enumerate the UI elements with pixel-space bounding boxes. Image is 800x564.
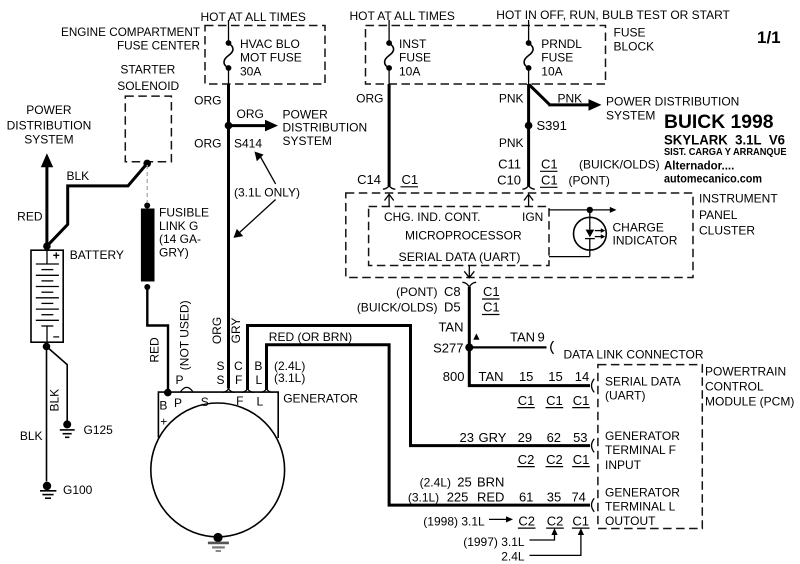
svg-text:INST: INST — [399, 37, 427, 51]
svg-text:DISTRIBUTION: DISTRIBUTION — [7, 118, 92, 132]
engine compartment fuse center box — [205, 26, 325, 85]
label FUSIBLE LINK G (14 GA- GRY) — [159, 206, 209, 260]
wire stub above PRNDL fuse — [528, 20, 530, 43]
connector at data link — [551, 341, 554, 354]
label C1 (C14 row, underlined) — [401, 172, 419, 187]
svg-text:C1: C1 — [541, 157, 558, 172]
svg-text:C2: C2 — [518, 452, 535, 467]
wire INST fuse to box edge — [388, 68, 390, 84]
svg-text:C1: C1 — [572, 513, 589, 528]
svg-text:CHG. IND. CONT.: CHG. IND. CONT. — [384, 210, 481, 224]
connector at PCM serial data — [592, 379, 595, 393]
label (1997) 3.1L with arrow to C2 — [463, 528, 557, 549]
svg-text:D5: D5 — [444, 300, 461, 315]
wire TAN cluster to S277 to PCM serial data — [469, 287, 590, 386]
fusible link G — [141, 203, 155, 291]
svg-text:HOT IN OFF, RUN, BULB TEST OR: HOT IN OFF, RUN, BULB TEST OR START — [496, 8, 730, 22]
svg-text:PNK: PNK — [499, 92, 524, 106]
svg-text:SYSTEM: SYSTEM — [24, 133, 73, 147]
generator body circle — [151, 403, 285, 537]
svg-text:BLK: BLK — [67, 169, 90, 183]
svg-text:(3.1L ONLY): (3.1L ONLY) — [234, 185, 300, 199]
svg-text:GENERATOR: GENERATOR — [605, 486, 680, 500]
svg-text:ORG: ORG — [194, 137, 221, 151]
svg-text:HOT AT ALL TIMES: HOT AT ALL TIMES — [201, 10, 306, 24]
connector at PCM terminal L — [592, 498, 595, 512]
svg-text:ORG: ORG — [356, 92, 383, 106]
fuse HVAC BLO MOT FUSE 30A — [224, 40, 233, 71]
svg-text:GENERATOR: GENERATOR — [283, 392, 358, 406]
label (2.4L) 25 BRN — [420, 475, 505, 490]
svg-text:35: 35 — [547, 490, 561, 505]
label POWER DISTRIBUTION SYSTEM (top middle) — [283, 107, 368, 148]
svg-text:MICROPROCESSOR: MICROPROCESSOR — [405, 228, 522, 242]
svg-text:C2: C2 — [518, 513, 535, 528]
svg-text:POWER: POWER — [283, 107, 329, 121]
label FUSE BLOCK — [614, 26, 655, 54]
svg-text:PNK: PNK — [558, 91, 583, 105]
starter solenoid box — [125, 96, 171, 162]
node at solenoid output — [143, 160, 151, 168]
svg-text:15: 15 — [548, 369, 562, 384]
svg-text:FUSE CENTER: FUSE CENTER — [117, 39, 200, 53]
svg-text:C1: C1 — [573, 393, 590, 408]
node generator B+ — [164, 389, 172, 397]
label C1 (D5 row, underlined) — [482, 300, 500, 315]
svg-text:(UART): (UART) — [605, 388, 645, 402]
label POWERTRAIN CONTROL MODULE (PCM) — [705, 365, 794, 409]
wire RED (OR BRN) generator L to PCM — [267, 345, 591, 505]
wire stub above INST fuse — [388, 20, 390, 43]
svg-text:BRN: BRN — [477, 475, 504, 490]
svg-text:C14: C14 — [357, 172, 381, 187]
svg-text:TAN: TAN — [510, 329, 535, 344]
svg-text:ENGINE COMPARTMENT: ENGINE COMPARTMENT — [61, 25, 201, 39]
label SERIAL DATA (UART) in PCM — [605, 374, 681, 402]
svg-text:SIST. CARGA Y ARRANQUE: SIST. CARGA Y ARRANQUE — [664, 147, 787, 158]
ground G125 — [60, 420, 75, 437]
label GENERATOR TERMINAL F INPUT — [605, 429, 680, 472]
svg-text:SOLENOID: SOLENOID — [117, 79, 179, 93]
svg-text:FUSE: FUSE — [541, 51, 573, 65]
svg-text:25: 25 — [457, 475, 471, 490]
label POWER DISTRIBUTION SYSTEM (left) — [7, 103, 92, 147]
svg-text:ORG: ORG — [210, 317, 224, 344]
label HVAC BLO MOT FUSE 30A — [240, 37, 302, 79]
label POWER DISTRIBUTION SYSTEM (right) — [606, 94, 739, 122]
generator terminal box — [158, 392, 278, 438]
wire TAN 9 to data link connector — [469, 346, 546, 348]
label (1998) 3.1L with arrow — [423, 514, 513, 528]
svg-text:PRNDL: PRNDL — [541, 37, 582, 51]
svg-text:2.4L: 2.4L — [501, 550, 525, 564]
svg-text:INDICATOR: INDICATOR — [613, 233, 678, 247]
instrument panel cluster box — [346, 193, 693, 278]
node battery positive — [43, 242, 51, 250]
svg-text:PNK: PNK — [499, 136, 524, 150]
wire dashed link solenoid to fusible link — [146, 165, 148, 202]
svg-text:225: 225 — [447, 490, 469, 505]
node S277 — [465, 343, 473, 351]
svg-text:FUSE: FUSE — [399, 51, 431, 65]
wire stub above HVAC fuse — [228, 20, 230, 26]
microprocessor box — [369, 207, 549, 266]
svg-text:30A: 30A — [240, 65, 261, 79]
label 2.4L with arrow to C1 — [501, 528, 584, 564]
node S414 — [225, 122, 233, 130]
svg-text:GENERATOR: GENERATOR — [605, 429, 680, 443]
svg-text:GRY: GRY — [479, 430, 507, 445]
wire ORG from INST fuse down to C14 — [388, 84, 391, 186]
svg-text:CONTROL: CONTROL — [705, 380, 764, 394]
svg-text:INPUT: INPUT — [605, 458, 642, 472]
wire arrow S414 to power distribution system — [229, 120, 279, 132]
svg-text:C2: C2 — [546, 452, 563, 467]
svg-text:MOT FUSE: MOT FUSE — [240, 51, 302, 65]
wire BLK battery to G125 — [47, 347, 68, 421]
wire BLK battery to G100 — [46, 347, 48, 482]
svg-text:L: L — [255, 373, 262, 387]
label C2 C2 C1 (F row, underlined) — [517, 452, 590, 467]
fuse INST FUSE 10A — [385, 40, 394, 71]
connector bump C14 — [383, 186, 395, 189]
svg-text:FUSIBLE: FUSIBLE — [159, 206, 209, 220]
svg-text:F: F — [236, 394, 243, 408]
svg-text:POWERTRAIN: POWERTRAIN — [705, 365, 786, 379]
powertrain control module box — [598, 365, 702, 529]
svg-text:S391: S391 — [537, 118, 567, 133]
svg-text:FUSE: FUSE — [614, 26, 646, 40]
svg-text:HVAC BLO: HVAC BLO — [240, 37, 300, 51]
svg-text:B: B — [159, 398, 167, 412]
label INSTRUMENT PANEL CLUSTER — [699, 192, 778, 238]
svg-text:LINK G: LINK G — [159, 219, 198, 233]
wire ORG main vertical (fuse to generator S terminal) — [227, 84, 230, 389]
svg-text:INSTRUMENT: INSTRUMENT — [699, 192, 778, 206]
direction arrow at S277 — [473, 333, 479, 339]
wire PNK from PRNDL fuse down to C10 — [527, 84, 530, 186]
svg-text:SYSTEM: SYSTEM — [606, 109, 655, 123]
svg-text:C8: C8 — [444, 284, 461, 299]
label 23 GRY — [460, 430, 507, 445]
svg-text:61: 61 — [519, 490, 533, 505]
svg-text:GRY): GRY) — [159, 246, 189, 260]
svg-text:C10: C10 — [497, 173, 521, 188]
svg-text:62: 62 — [547, 430, 561, 445]
wire RED fusible link to generator B+ — [147, 287, 168, 391]
arrow from (3.1L ONLY) to ORG wire — [234, 200, 276, 238]
label (PONT) C8 — [396, 284, 460, 299]
svg-text:C11: C11 — [498, 157, 521, 172]
ground at generator body — [208, 533, 229, 551]
label C1 (C10 row, underlined) — [540, 173, 558, 188]
ground G100 — [40, 482, 56, 498]
node charge indicator top — [587, 207, 593, 213]
label TAN 9 — [510, 329, 545, 344]
svg-text:23: 23 — [460, 430, 474, 445]
svg-text:10A: 10A — [541, 65, 562, 79]
svg-text:B: B — [254, 359, 262, 373]
svg-text:TERMINAL F: TERMINAL F — [605, 443, 676, 457]
svg-text:S277: S277 — [433, 340, 463, 355]
label C2 C2 C1 (L row, underlined) — [518, 513, 590, 528]
svg-text:C1: C1 — [483, 300, 500, 315]
label 29 62 53 (pins) — [518, 430, 588, 445]
svg-text:14: 14 — [575, 369, 589, 384]
svg-text:29: 29 — [518, 430, 532, 445]
svg-text:C1: C1 — [546, 393, 563, 408]
svg-text:CHARGE: CHARGE — [613, 220, 664, 234]
svg-text:(BUICK/OLDS): (BUICK/OLDS) — [579, 158, 660, 172]
svg-text:TAN: TAN — [438, 320, 463, 335]
label ENGINE COMPARTMENT FUSE CENTER — [61, 25, 201, 53]
svg-text:S: S — [201, 395, 209, 409]
svg-text:9: 9 — [538, 329, 545, 344]
label C1 (C11 row, underlined) — [540, 157, 558, 172]
arrow into CHG IND CONT — [385, 194, 394, 206]
svg-text:P: P — [174, 396, 182, 410]
label 61 35 74 (pins) — [519, 490, 586, 505]
svg-text:10A: 10A — [399, 65, 420, 79]
label PRNDL FUSE 10A — [541, 37, 582, 79]
svg-text:G100: G100 — [63, 483, 93, 497]
svg-text:DISTRIBUTION: DISTRIBUTION — [283, 120, 368, 134]
connector bump P (not used) — [180, 387, 193, 392]
svg-text:POWER: POWER — [26, 103, 72, 117]
svg-text:(1998) 3.1L: (1998) 3.1L — [423, 514, 485, 528]
svg-text:(2.4L): (2.4L) — [420, 476, 451, 490]
wire PRNDL fuse to box edge — [528, 68, 530, 84]
connector bump S — [222, 389, 234, 392]
svg-text:(1997) 3.1L: (1997) 3.1L — [463, 535, 525, 549]
svg-text:BUICK 1998: BUICK 1998 — [664, 112, 774, 133]
svg-text:STARTER: STARTER — [120, 63, 175, 77]
svg-text:+: + — [160, 415, 167, 429]
svg-text:L: L — [257, 394, 264, 408]
wire arrow PNK to power distribution system — [529, 85, 602, 111]
svg-text:ORG: ORG — [194, 94, 221, 108]
svg-text:C1: C1 — [518, 393, 535, 408]
connector bump C10 — [522, 186, 534, 189]
label C1 C1 C1 (serial row, underlined) — [517, 393, 590, 408]
svg-text:(3.1L): (3.1L) — [274, 371, 305, 385]
label 15 15 14 (pins) — [519, 369, 589, 384]
svg-text:(3.1L): (3.1L) — [408, 491, 439, 505]
svg-text:PANEL: PANEL — [699, 208, 738, 222]
connector bump C8/D5 — [462, 282, 476, 286]
connector bump F — [241, 389, 253, 392]
connector at PCM terminal F — [592, 439, 595, 453]
svg-text:RED: RED — [17, 210, 43, 224]
svg-text:BLK: BLK — [20, 429, 43, 443]
label (BUICK/OLDS) D5 — [357, 300, 461, 315]
label STARTER SOLENOID — [117, 63, 179, 93]
svg-text:S414: S414 — [234, 137, 262, 151]
svg-text:CLUSTER: CLUSTER — [699, 223, 755, 237]
label C1 (C8 row, underlined) — [482, 284, 500, 299]
svg-text:C1: C1 — [402, 172, 419, 187]
svg-text:BLOCK: BLOCK — [614, 40, 655, 54]
label GENERATOR TERMINAL L OUTOUT — [605, 486, 680, 529]
connector bump L — [260, 389, 272, 392]
svg-text:(BUICK/OLDS): (BUICK/OLDS) — [357, 301, 438, 315]
svg-text:15: 15 — [519, 369, 533, 384]
label (3.1L) 225 RED — [408, 490, 505, 505]
svg-text:C1: C1 — [573, 452, 590, 467]
svg-text:BATTERY: BATTERY — [70, 248, 124, 262]
svg-text:TAN: TAN — [479, 369, 504, 384]
svg-text:G125: G125 — [84, 423, 114, 437]
label CHARGE INDICATOR — [613, 220, 678, 247]
svg-text:GRY: GRY — [229, 318, 243, 344]
arrow into IGN — [524, 194, 533, 206]
arrow out of SERIAL DATA (UART) down — [464, 266, 474, 278]
svg-text:IGN: IGN — [522, 210, 543, 224]
svg-text:BLK: BLK — [48, 389, 62, 412]
svg-text:DATA LINK CONNECTOR: DATA LINK CONNECTOR — [564, 347, 704, 361]
svg-text:S: S — [216, 373, 224, 387]
svg-text:RED: RED — [148, 337, 162, 363]
wire BLK starter solenoid to battery — [47, 163, 147, 246]
svg-text:C1: C1 — [541, 173, 558, 188]
svg-text:TERMINAL L: TERMINAL L — [605, 499, 676, 513]
svg-text:S: S — [216, 359, 224, 373]
svg-text:POWER DISTRIBUTION: POWER DISTRIBUTION — [606, 94, 739, 108]
wire arrow battery to power distribution system (RED) — [41, 153, 53, 246]
arrow from (3.1L ONLY) to S414 — [255, 152, 276, 184]
svg-text:(PONT): (PONT) — [569, 174, 610, 188]
node battery negative — [43, 343, 51, 351]
svg-text:–: – — [53, 329, 60, 343]
battery — [31, 250, 63, 342]
svg-text:automecanico.com: automecanico.com — [664, 174, 762, 186]
svg-text:MODULE (PCM): MODULE (PCM) — [705, 394, 794, 408]
svg-text:(PONT): (PONT) — [396, 285, 437, 299]
svg-text:(14 GA-: (14 GA- — [159, 232, 201, 246]
svg-text:C1: C1 — [483, 284, 500, 299]
svg-text:+: + — [53, 249, 60, 263]
svg-text:SERIAL DATA (UART): SERIAL DATA (UART) — [399, 250, 521, 264]
node S391 — [525, 122, 533, 130]
svg-text:RED (OR BRN): RED (OR BRN) — [269, 330, 352, 344]
svg-text:(NOT USED): (NOT USED) — [178, 300, 192, 370]
svg-text:ORG: ORG — [237, 107, 264, 121]
svg-text:SKYLARK 3.1L V6: SKYLARK 3.1L V6 — [664, 131, 785, 147]
svg-text:53: 53 — [573, 430, 587, 445]
svg-text:SYSTEM: SYSTEM — [283, 134, 332, 148]
svg-text:SERIAL DATA: SERIAL DATA — [605, 374, 681, 388]
fuse PRNDL FUSE 10A — [524, 40, 533, 71]
wire GRY generator F to PCM — [248, 326, 591, 446]
svg-text:800: 800 — [443, 369, 465, 384]
wire IGN to charge indicator with arrow — [549, 207, 617, 213]
svg-text:C2: C2 — [547, 513, 564, 528]
svg-text:Alternador....: Alternador.... — [664, 161, 734, 173]
fuse block box — [366, 26, 606, 85]
svg-text:P: P — [175, 373, 183, 387]
wire from HVAC fuse to box edge — [228, 68, 230, 84]
wire into HVAC fuse — [228, 26, 230, 44]
svg-text:RED: RED — [477, 490, 504, 505]
svg-text:HOT AT ALL TIMES: HOT AT ALL TIMES — [350, 9, 455, 23]
svg-text:OUTOUT: OUTOUT — [605, 514, 656, 528]
label INST FUSE 10A — [399, 37, 431, 79]
svg-text:C: C — [234, 359, 243, 373]
svg-text:F: F — [235, 373, 242, 387]
svg-text:1/1: 1/1 — [757, 28, 781, 47]
svg-text:74: 74 — [571, 490, 585, 505]
charge indicator LED — [549, 210, 606, 257]
